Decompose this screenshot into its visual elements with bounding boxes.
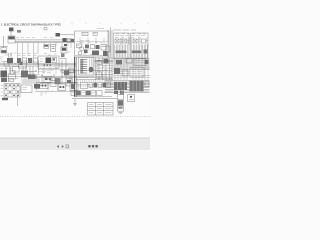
dimmer switch [55,78,61,84]
winker relay [123,70,129,76]
component BL-d [58,84,66,91]
flasher unit [126,59,132,64]
wire [75,96,112,98]
small box J2 [4,62,9,66]
wire [62,72,75,74]
pickup box [106,46,111,52]
label [97,27,104,29]
component BL-f [81,83,88,89]
wire [76,59,150,86]
top edge tick labels [60,23,148,24]
wire [29,66,31,78]
cells speckles [72,91,112,94]
meter label speckle [113,29,136,31]
CDI top box 2 [93,32,97,35]
pilot box dark [64,70,69,75]
grid dots [5,85,18,97]
page background [0,0,150,150]
small box J3 [9,74,16,79]
lamp L1 [115,39,119,43]
relay K5 [96,45,100,49]
handlebar switch assembly [38,56,59,69]
viewer toolbar [0,138,150,150]
component BL-a [21,85,32,93]
starter motor dark [1,71,8,78]
main harness wire [74,57,76,97]
center speckles [96,64,112,76]
wire [25,66,27,71]
wire [3,36,5,48]
wire [0,73,35,75]
switch label speckles [40,59,54,73]
wire [96,76,112,78]
dark mark under grid [2,98,8,100]
page bottom dashed line [0,115,150,117]
relay K1 [51,45,56,52]
wire [17,96,19,107]
horn unit [114,68,120,74]
ground symbol [74,99,76,104]
license lamp [145,81,149,87]
wire [60,34,75,36]
wire [22,66,24,72]
tail lamp block dark [114,82,127,90]
resistor R1 [44,28,47,30]
component BL-e [70,83,78,91]
wire [72,98,118,100]
diode block D1 [61,47,67,53]
wire [95,74,113,76]
main wire bus band 2 [0,64,76,66]
pilot box 2 [69,68,74,73]
wire [60,58,66,60]
wire drops [18,43,72,58]
ignition coil T1 [8,36,15,43]
junction box J1 [13,67,20,73]
connector table header [1,78,7,82]
component BL-c [50,81,56,87]
wire [65,59,67,71]
wire [76,78,113,80]
wire [95,59,114,61]
wire bus band 1 [15,39,75,41]
CDI internal wires [80,38,104,45]
lamp L4 [142,39,146,43]
small dark box right [145,60,149,64]
wire [10,31,12,36]
bracket2 dark [21,71,28,78]
CDI mid cluster [80,47,83,50]
CDI mid speckles [77,43,103,55]
wire [9,66,11,73]
rectifier box dark [8,53,10,58]
sensor dark [104,59,109,64]
connector ladder block CN3 [79,58,95,76]
earth block dark [28,75,36,82]
meter assembly box right [131,33,148,58]
wire [38,60,40,74]
fuse F1 [116,60,122,65]
frame ground [34,84,40,89]
meter upper verticals [120,38,147,45]
rectifier U2 [44,45,49,49]
wire [113,68,150,76]
meter wire bundle [115,45,148,58]
oval lamp [89,67,94,73]
fuse box F2 [128,95,135,102]
relay K4 [91,45,95,49]
label speckles 2 [0,52,111,95]
wire verticals [35,74,37,90]
toolbar zoom icons [88,145,98,147]
right verticals [114,58,116,80]
terminal ticks comb [78,80,111,82]
small box J4 [10,70,15,74]
horn H1 [63,38,67,42]
switch dark cell [46,58,52,64]
rear winker dark [130,81,144,92]
component BL-b [37,83,49,89]
ground mark [119,112,123,114]
wire [60,69,75,71]
wire under row [35,90,76,92]
terminal row [89,83,93,88]
wire [69,68,71,80]
CDI bracket dark [19,61,27,68]
node cluster [92,51,99,56]
svg-text:1. ELECTRICAL CIRCUIT DIAGRAM: 1. ELECTRICAL CIRCUIT DIAGRAM (BLACK TYP… [1,24,61,27]
wire labels speckle [16,37,53,39]
turn signal box [134,59,146,66]
terminal cells row [71,91,76,96]
legend table [88,103,114,116]
wire verticals center [95,58,97,81]
switch cell 2 [52,58,57,63]
switch dots [43,64,45,66]
toolbar nav icons [57,145,69,148]
node row 1 [116,51,127,54]
wire bus band 3 [35,75,95,77]
lamp gap speckles [120,40,148,43]
small box CN4 [97,91,103,96]
lamp L2 [123,39,127,43]
relay K2 [77,44,82,48]
wire [107,30,109,58]
wire [95,61,114,63]
wire [9,66,11,74]
wire [110,28,112,59]
wire bus band 2b [0,62,76,64]
meter speckles2 [116,33,146,35]
wire [32,66,34,75]
relay K6 [101,45,107,51]
meter inner text [115,36,145,38]
switch S1 [56,33,61,37]
label speckles [5,53,57,56]
block texture overlay [118,81,141,92]
small box [97,72,102,77]
starter relay [66,79,72,87]
meter assembly box left [114,33,130,58]
connector grid [4,84,20,98]
ladder right wires [90,59,94,75]
CDI top box 1 [82,32,88,36]
node row 2 [132,51,142,54]
wire [61,60,63,84]
connector CN1 [9,28,14,32]
shaded area [22,79,41,84]
wire [120,88,122,95]
rear combination box [130,68,144,78]
row label ticks [1,85,4,95]
harness mark B [120,91,124,95]
lamp L3 [133,39,137,43]
battery B1 [118,95,124,100]
CDI unit box U3 [75,31,109,57]
CDI inner text [80,34,96,43]
relay K3 [85,45,89,49]
node [64,44,67,46]
sensor box [97,61,102,65]
node row 3 [144,50,148,54]
left speckles [1,62,44,81]
ignition switch [44,77,52,83]
wire [5,66,7,71]
magneto M1 [1,48,7,54]
right harness buses [113,58,150,60]
connector row CN2 [17,58,21,63]
harness mark A [114,91,118,95]
